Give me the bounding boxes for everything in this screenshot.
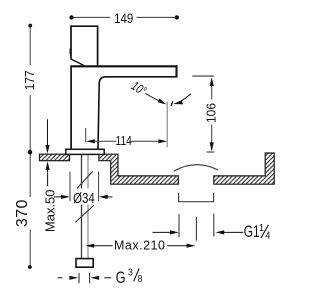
svg-text:177: 177 bbox=[22, 70, 37, 90]
svg-text:149: 149 bbox=[114, 11, 133, 26]
svg-text:4: 4 bbox=[265, 230, 270, 242]
svg-text:G: G bbox=[116, 270, 126, 288]
svg-text:Ø34: Ø34 bbox=[73, 189, 95, 206]
svg-text:G1: G1 bbox=[244, 223, 260, 241]
svg-text:8: 8 bbox=[138, 274, 143, 286]
svg-text:3: 3 bbox=[128, 267, 133, 279]
svg-text:1: 1 bbox=[259, 222, 264, 234]
svg-text:106: 106 bbox=[204, 103, 219, 123]
svg-text:114: 114 bbox=[116, 133, 133, 149]
svg-text:Max.50: Max.50 bbox=[42, 189, 57, 232]
svg-text:Max.210: Max.210 bbox=[114, 239, 165, 253]
svg-text:370: 370 bbox=[14, 199, 31, 227]
